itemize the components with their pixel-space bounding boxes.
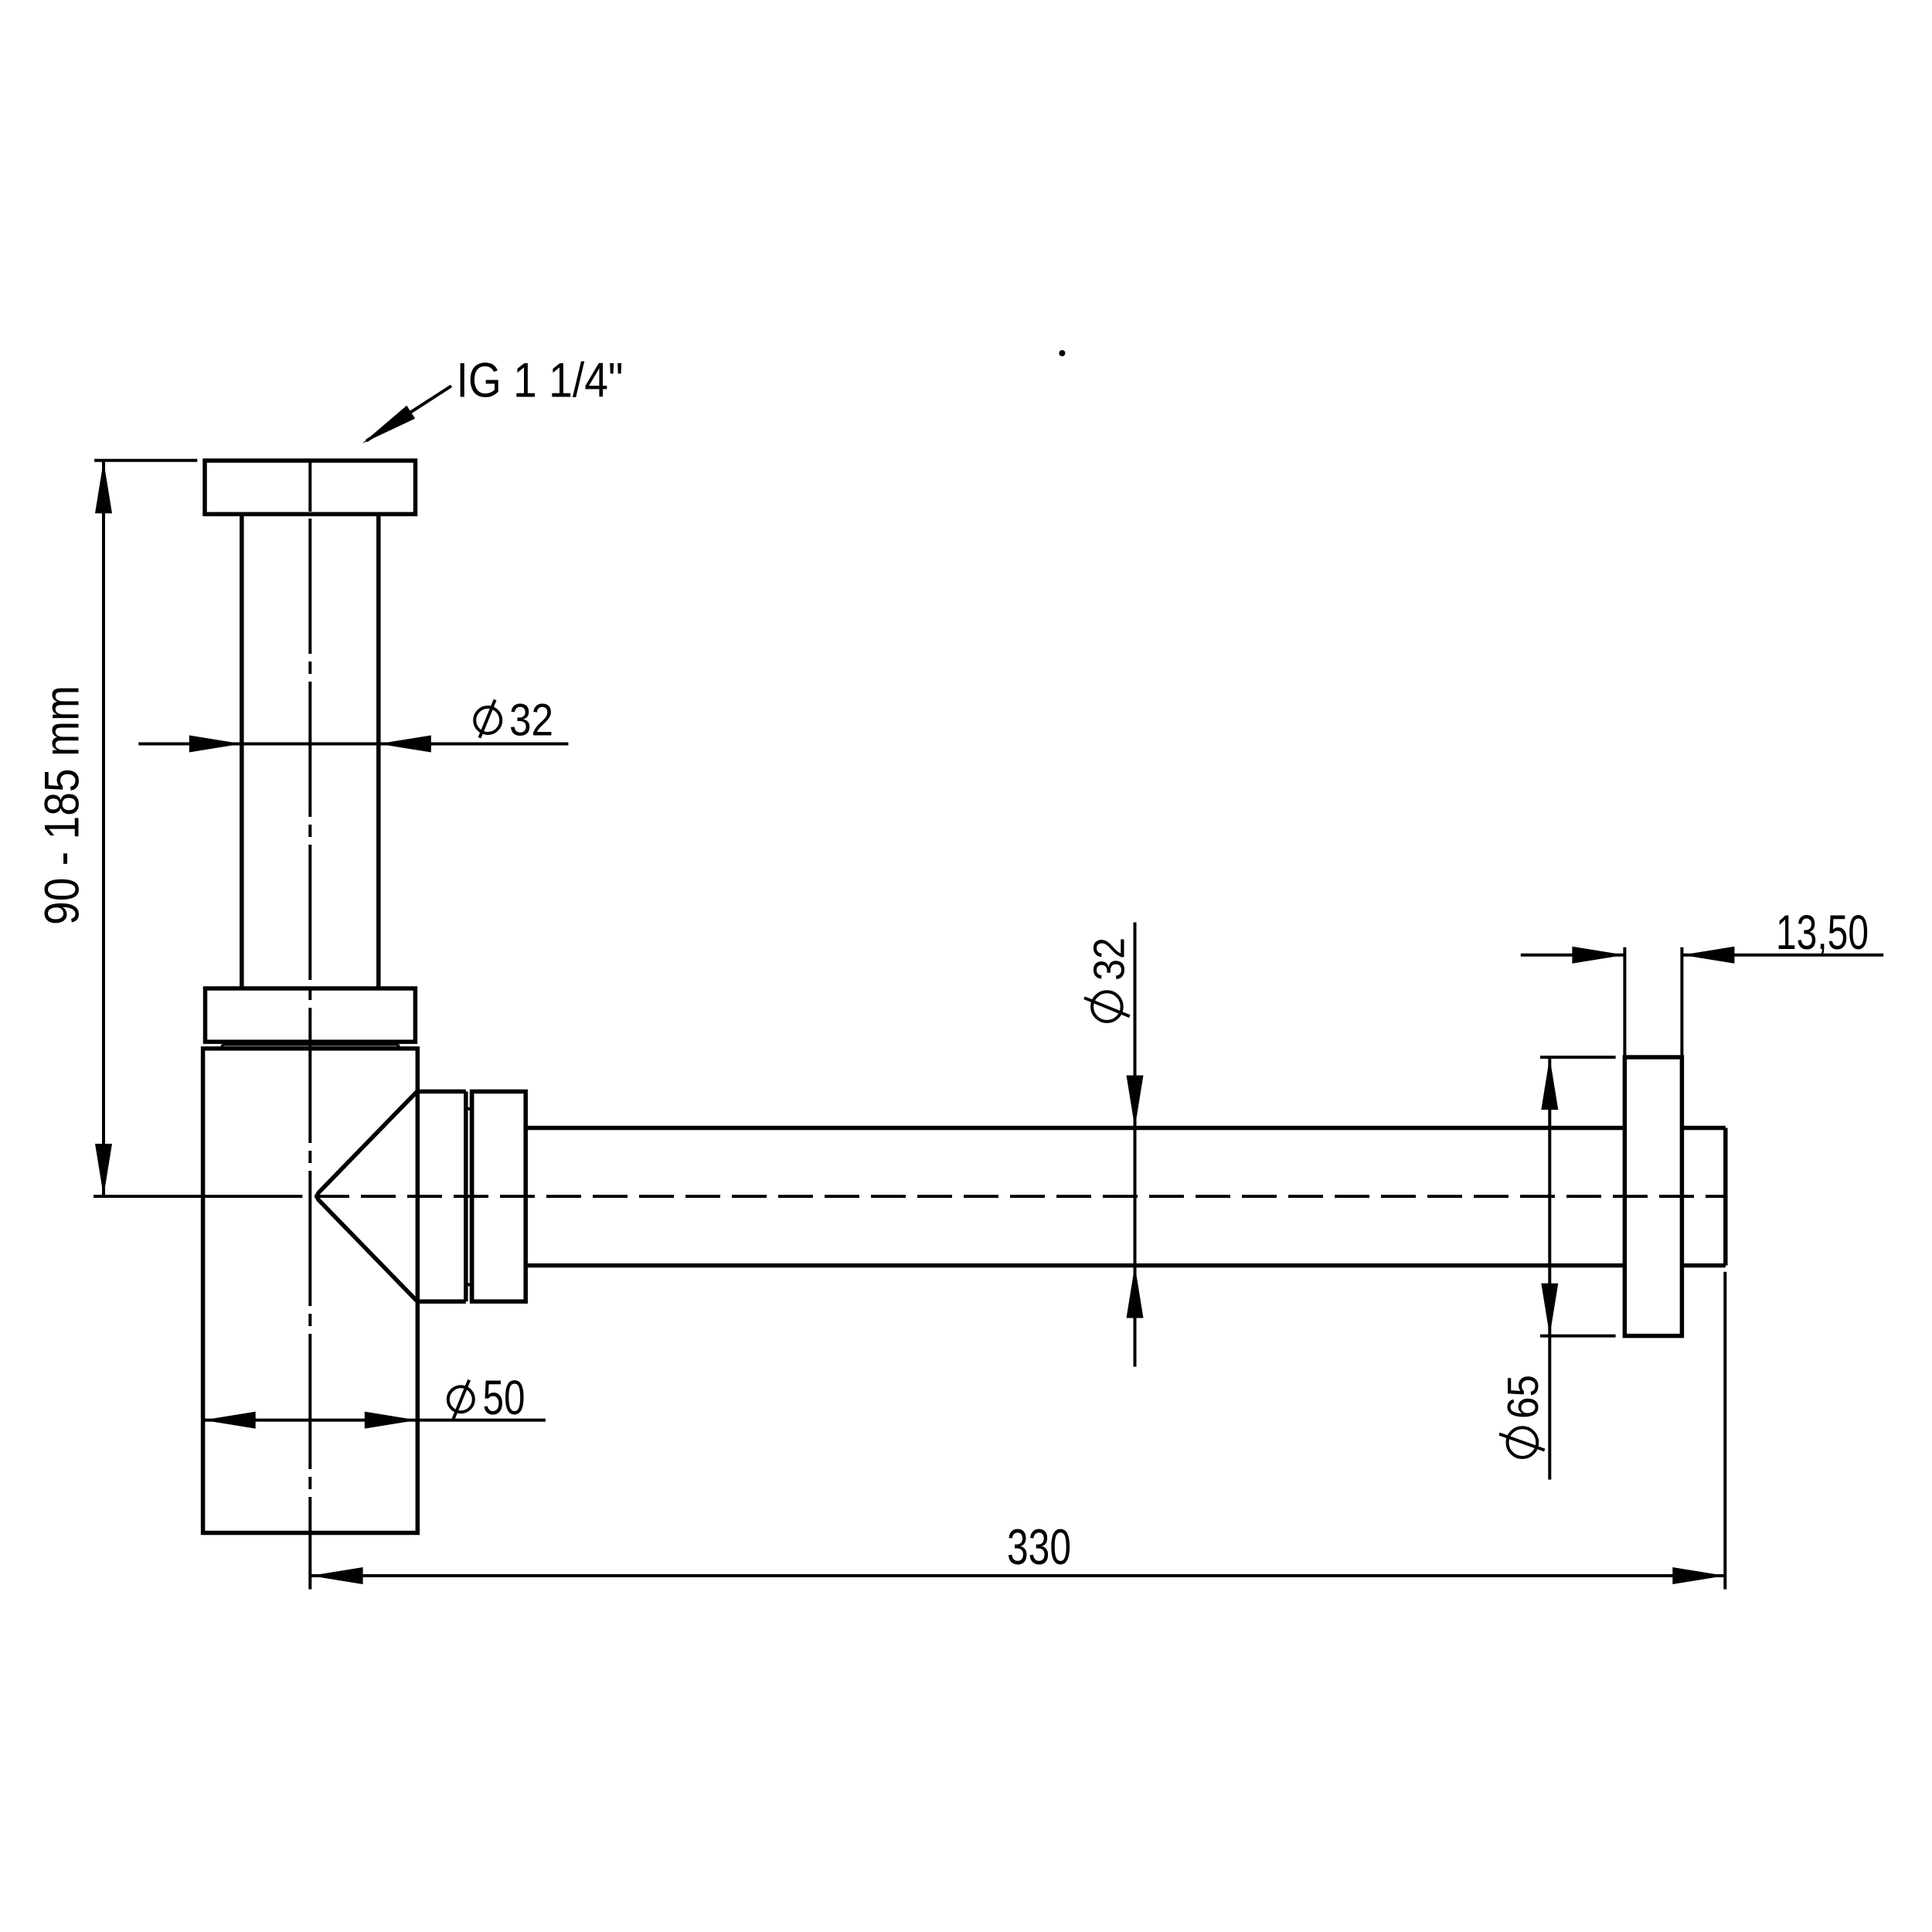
svg-text:13,50: 13,50: [1776, 906, 1869, 960]
collar nut: [206, 988, 416, 1042]
svg-text:65: 65: [1498, 1375, 1548, 1419]
vertical inlet pipe: [240, 514, 244, 988]
dim 90-185 line: [102, 461, 105, 1196]
horizontal pipe: [526, 1126, 1624, 1131]
arrow 13,50 right: [1682, 947, 1734, 964]
arrow top d32 left: [189, 736, 242, 753]
label d32 mid rotated: [1084, 992, 1130, 1022]
cone: [318, 1091, 417, 1301]
svg-text:90 - 185 mm: 90 - 185 mm: [36, 685, 90, 925]
arrow d50 right: [365, 1412, 417, 1429]
dim d65 line: [1548, 1057, 1551, 1480]
arrow dim 90-185 top: [95, 461, 112, 513]
arrow mid d32 top: [1127, 1076, 1144, 1128]
label d50: [448, 1380, 474, 1420]
arrow d65 bottom: [1541, 1284, 1558, 1336]
arrow d50 left: [203, 1412, 256, 1429]
svg-text:330: 330: [1007, 1519, 1071, 1575]
trap body: [203, 1049, 418, 1533]
svg-text:32: 32: [1084, 937, 1134, 981]
svg-text:50: 50: [483, 1371, 526, 1425]
arrow top d32 right: [379, 736, 431, 753]
arrow 330 left: [311, 1567, 363, 1584]
arrow mid d32 bottom: [1127, 1266, 1144, 1318]
dim 330 extension: [1723, 1272, 1726, 1590]
dim d65 extensions: [1540, 1056, 1616, 1059]
gasket: [223, 1043, 399, 1046]
leader line IG: [366, 386, 451, 440]
horizontal centerline dashed: [315, 1195, 1726, 1198]
dim top d32 line: [138, 743, 568, 746]
reference dot: [1059, 350, 1065, 356]
vertical centerline: [308, 461, 311, 512]
arrow 13,50 left: [1572, 947, 1624, 964]
dim 330 line: [311, 1574, 1726, 1577]
wall flange: [1624, 1057, 1682, 1336]
label d65 rotated: [1499, 1427, 1545, 1458]
dim mid d32 line: [1134, 923, 1137, 1367]
tee outlet: [417, 1090, 466, 1094]
dim 90-185 extension: [94, 459, 197, 462]
washer: [464, 1091, 468, 1301]
svg-text:32: 32: [509, 696, 553, 746]
dim 13,50 lines: [1521, 954, 1625, 957]
label d32 top: [474, 700, 501, 738]
dim 13,50 extensions: [1623, 947, 1626, 1057]
arrow dim 90-185 bottom: [95, 1144, 112, 1196]
outlet nut: [472, 1091, 526, 1301]
svg-text:IG 1 1/4": IG 1 1/4": [457, 353, 624, 407]
dim d50 line: [203, 1419, 546, 1422]
arrow d65 top: [1541, 1057, 1558, 1110]
arrow 330 right: [1672, 1567, 1725, 1584]
wall stub: [1682, 1126, 1725, 1131]
horizontal centerline solid: [94, 1195, 302, 1198]
arrow leader IG: [362, 406, 415, 444]
top flange: [205, 461, 416, 514]
